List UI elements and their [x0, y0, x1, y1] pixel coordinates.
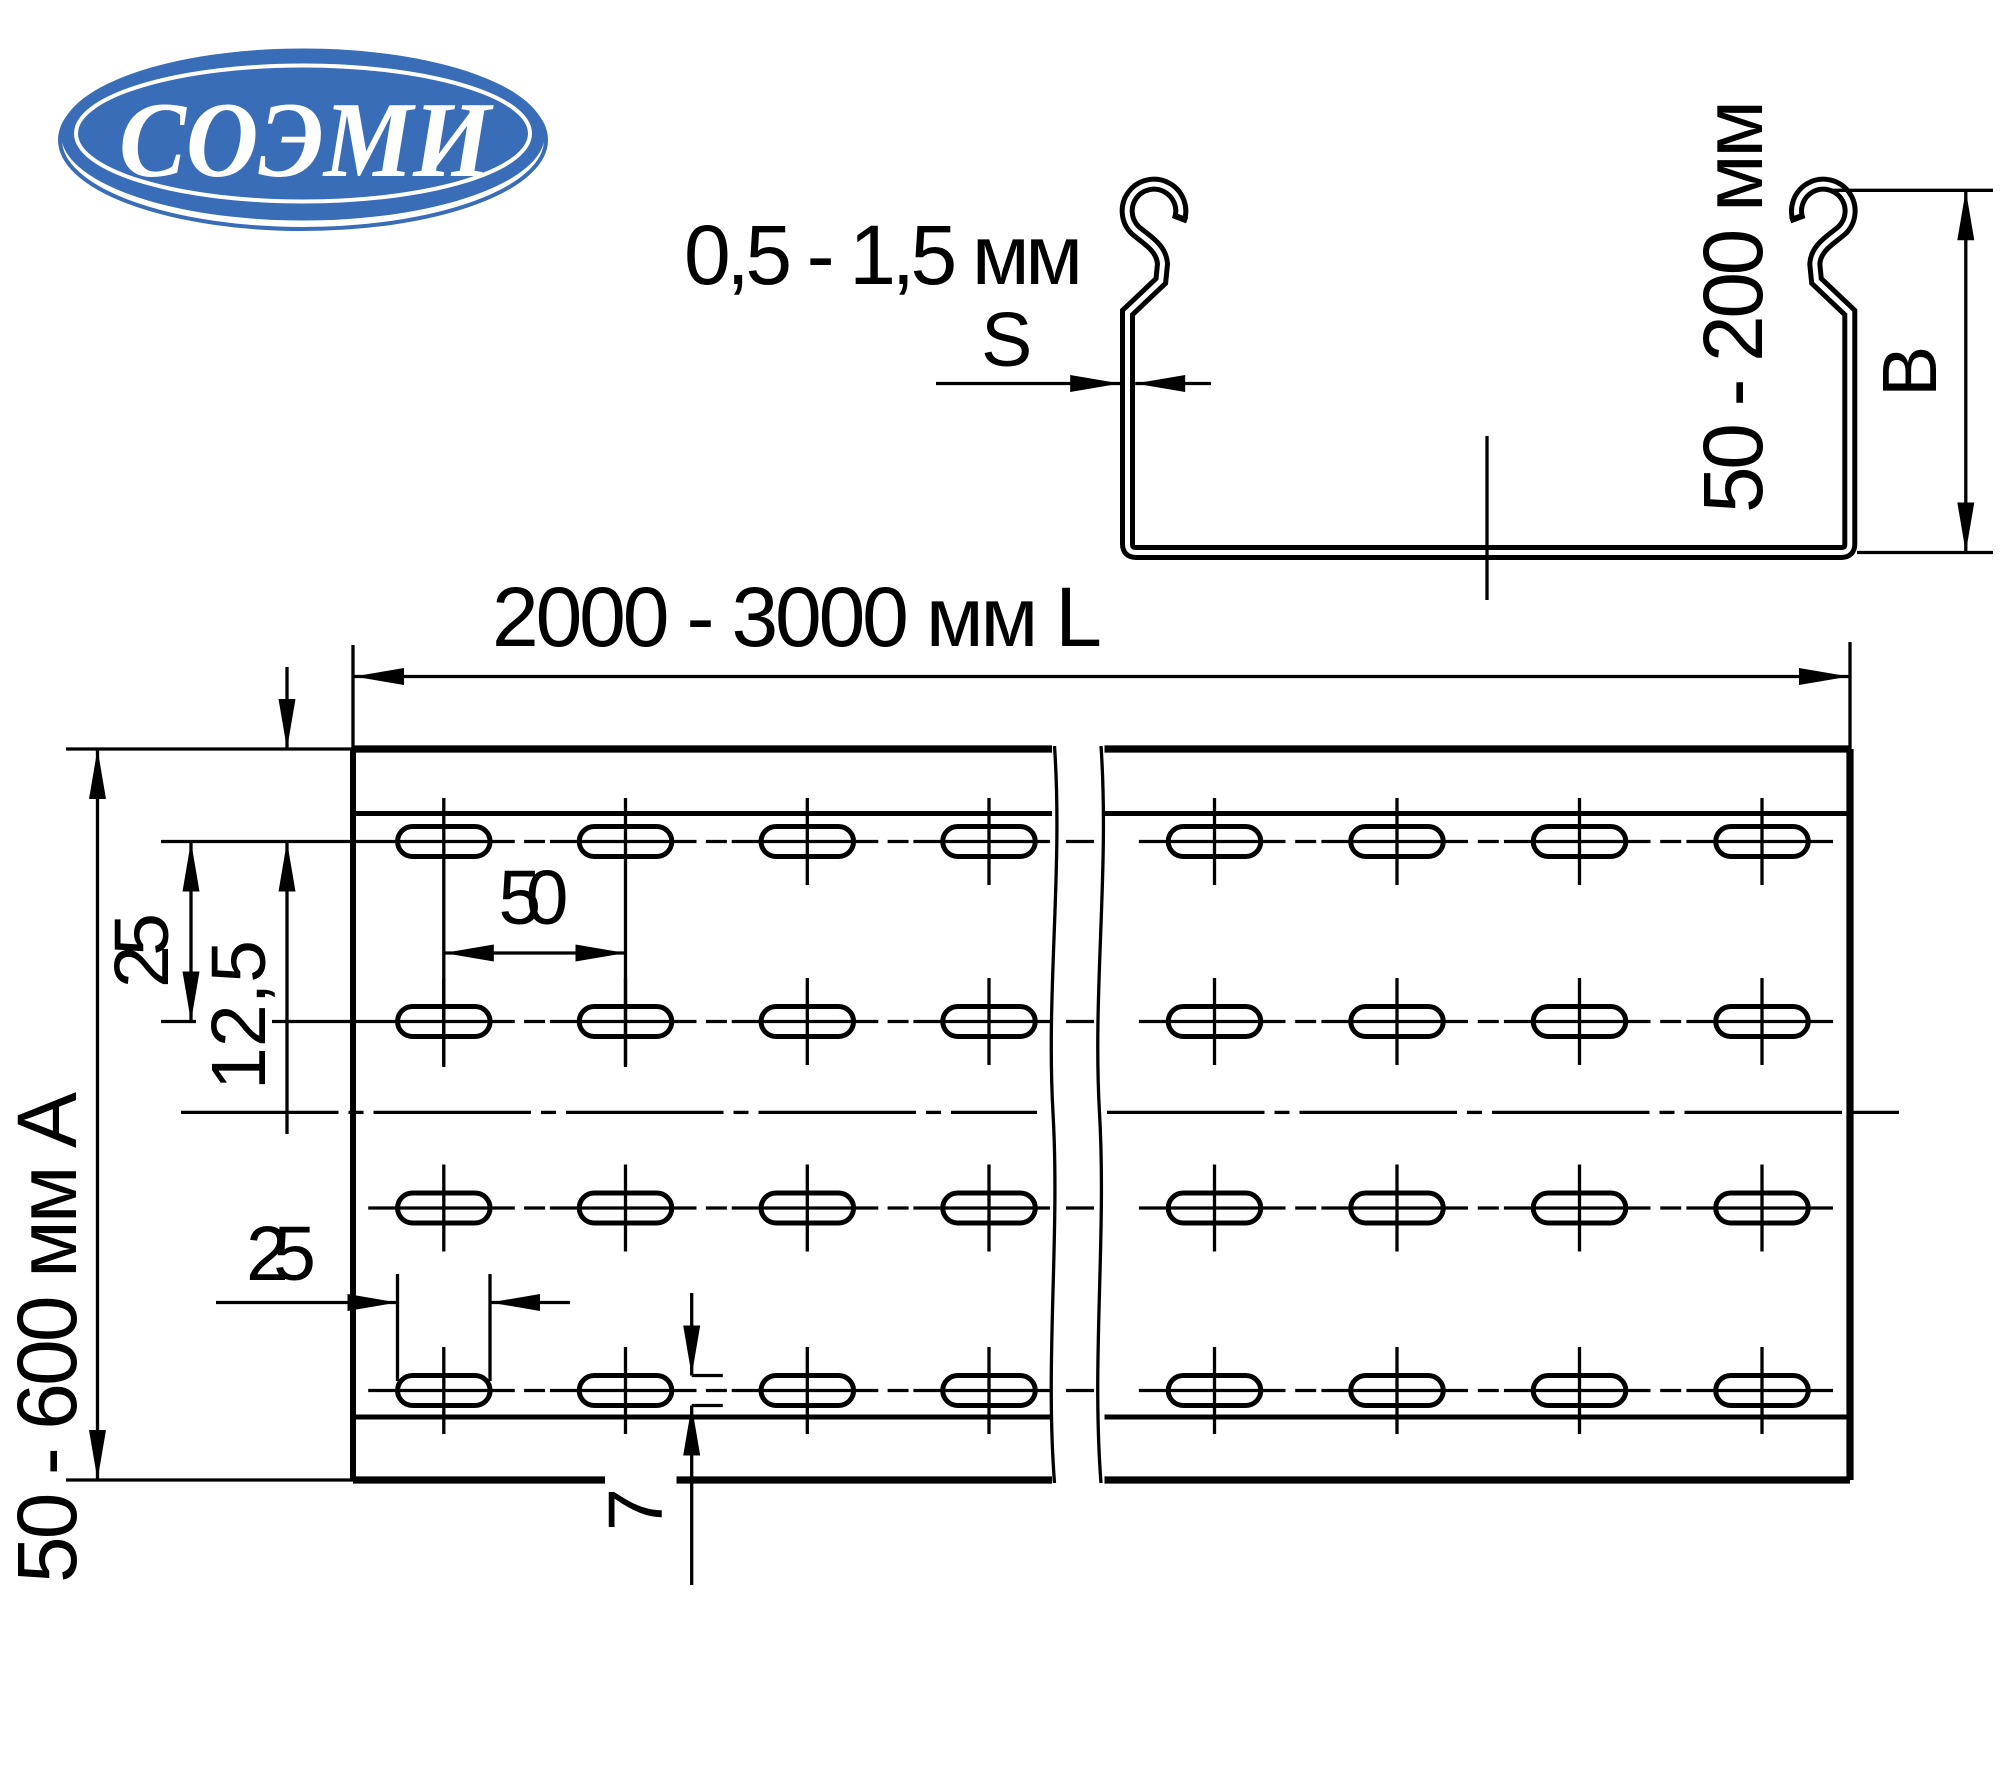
svg-text:25: 25 — [99, 913, 185, 988]
svg-text:S: S — [981, 297, 1032, 383]
svg-text:B: B — [1867, 346, 1953, 397]
svg-text:7: 7 — [593, 1488, 679, 1531]
svg-text:СОЭМИ: СОЭМИ — [119, 81, 494, 200]
svg-text:50 - 200 мм: 50 - 200 мм — [1686, 100, 1780, 513]
svg-text:50 - 600 мм А: 50 - 600 мм А — [0, 1092, 94, 1583]
svg-text:50: 50 — [498, 855, 568, 941]
svg-text:12,5: 12,5 — [196, 940, 282, 1090]
svg-text:2000 - 3000 мм L: 2000 - 3000 мм L — [492, 570, 1102, 664]
svg-text:0,5 - 1,5 мм: 0,5 - 1,5 мм — [684, 208, 1083, 302]
svg-text:25: 25 — [246, 1211, 316, 1297]
